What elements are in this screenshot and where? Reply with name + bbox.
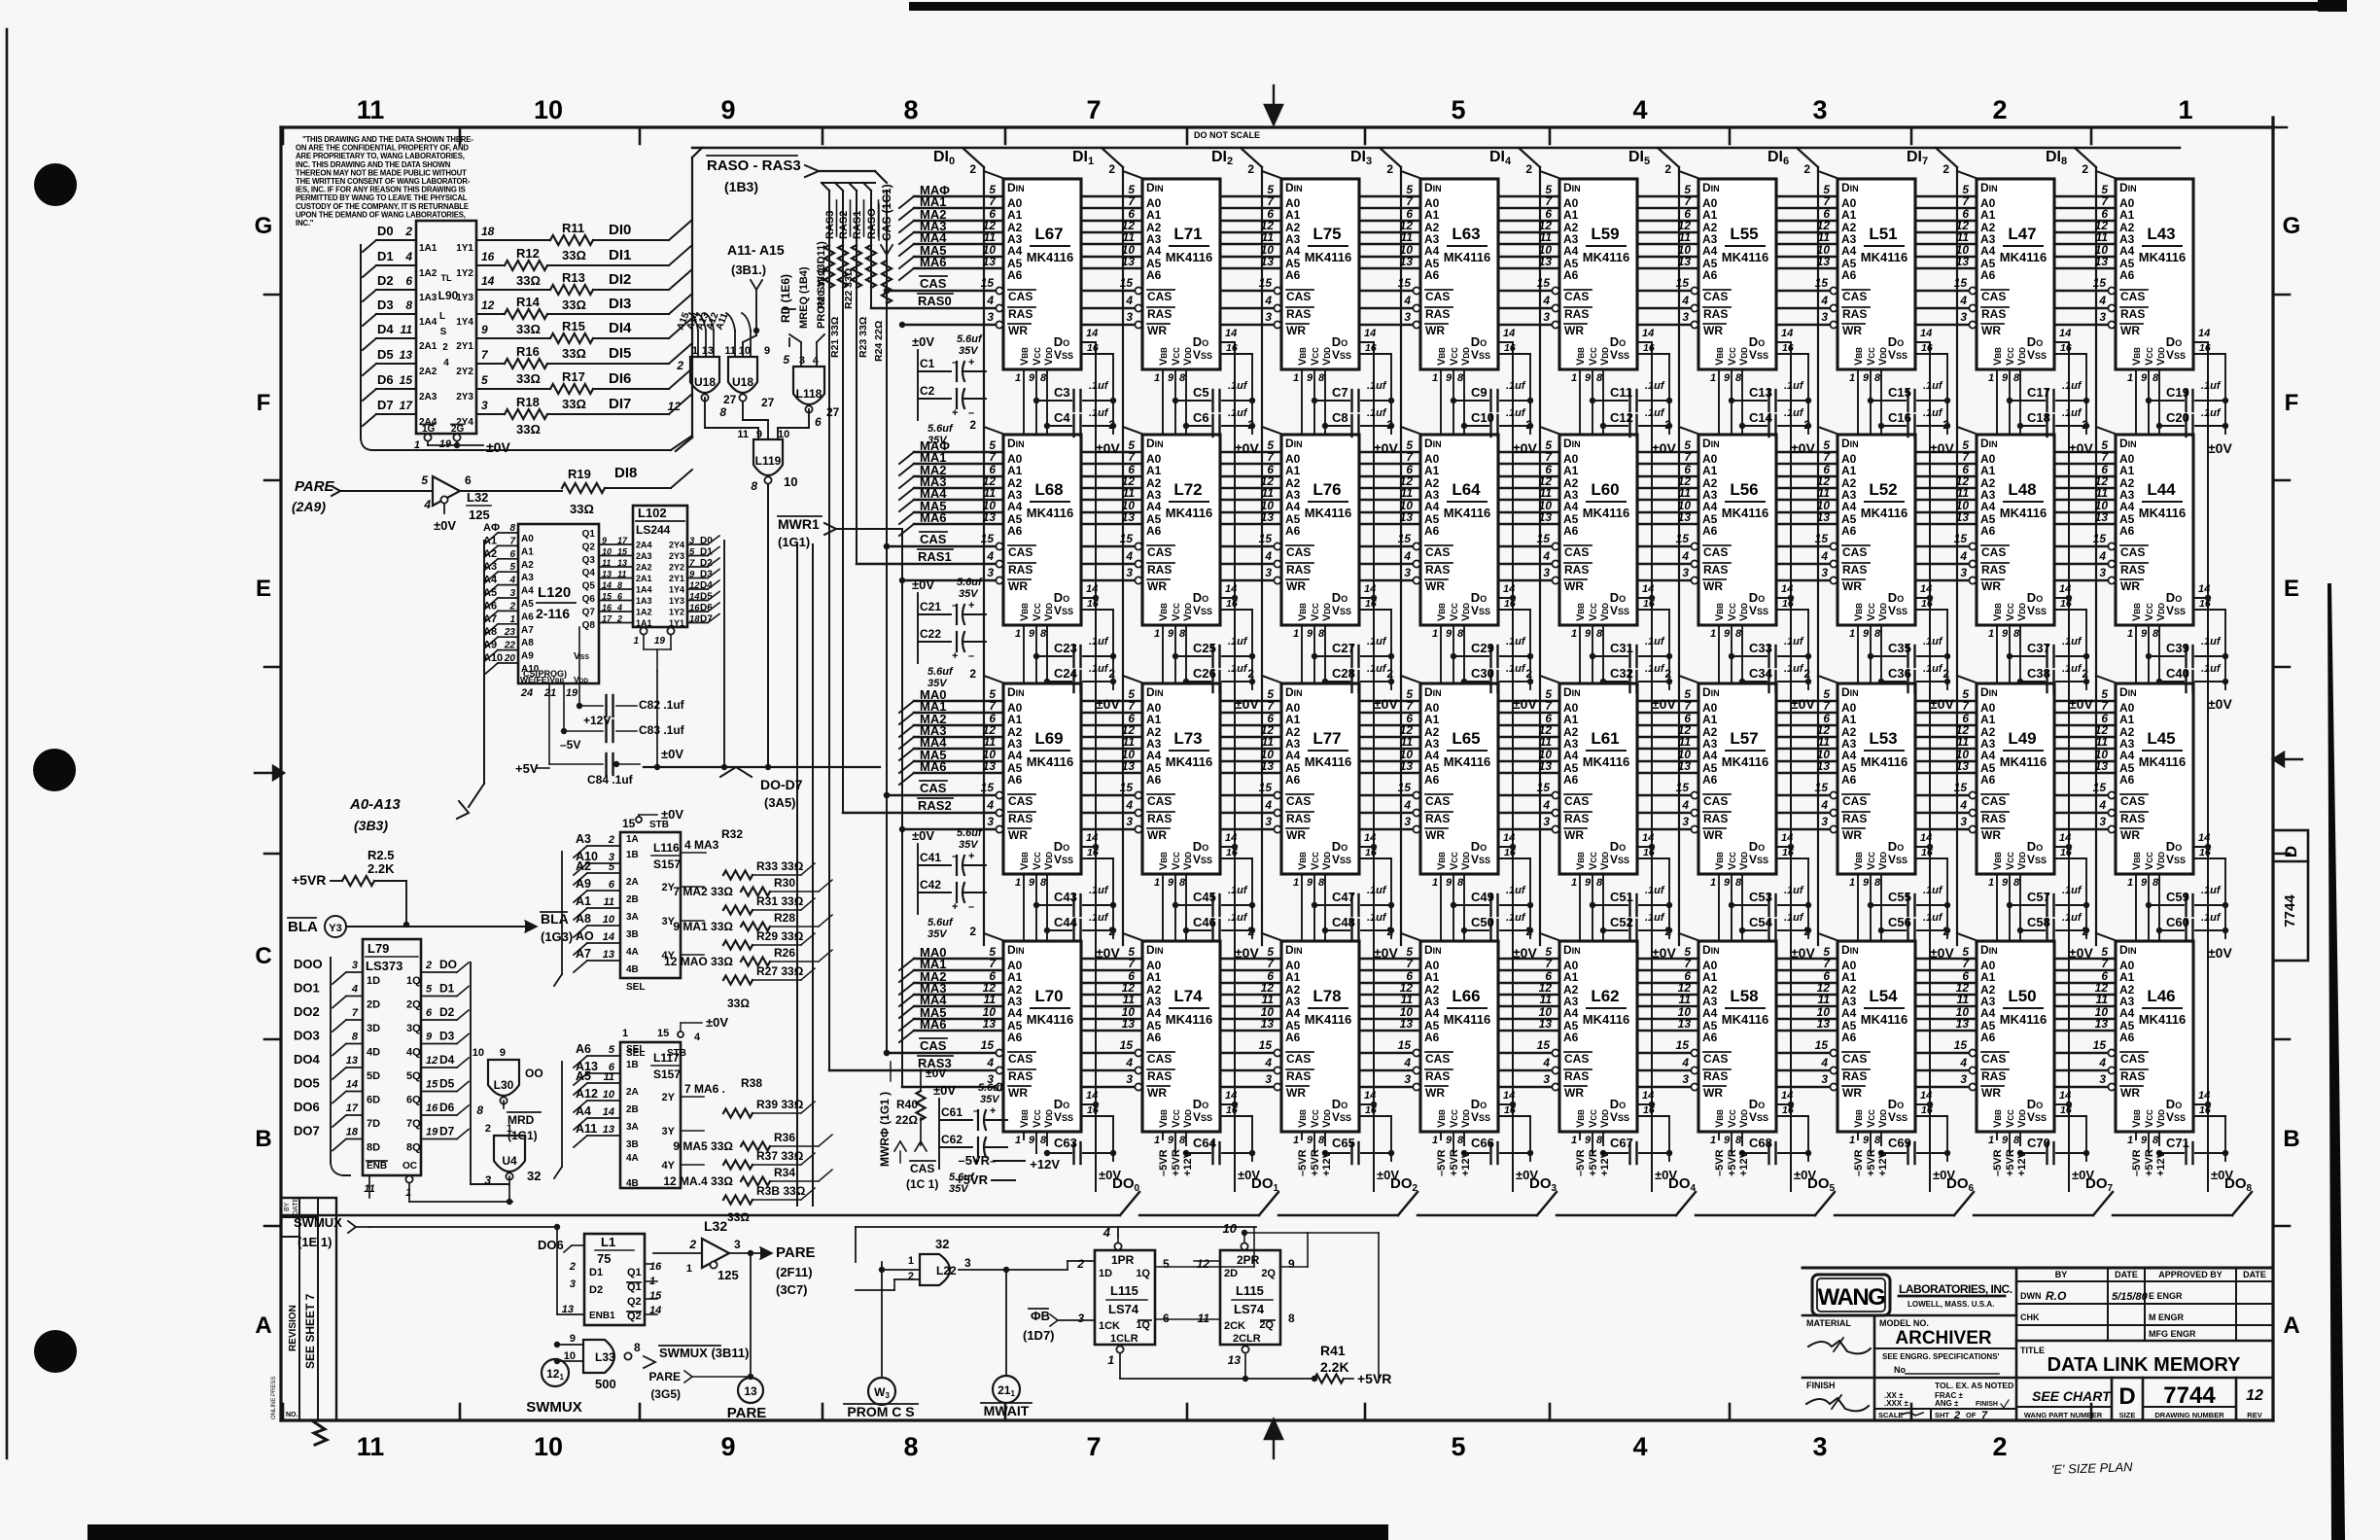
svg-text:4: 4 bbox=[1820, 294, 1828, 307]
svg-text:Q8: Q8 bbox=[582, 620, 596, 631]
svg-text:VCC: VCC bbox=[1171, 347, 1182, 366]
svg-text:A1: A1 bbox=[1146, 713, 1162, 726]
node DO3 output vertical bbox=[1512, 342, 1514, 1191]
svg-text:1D: 1D bbox=[367, 975, 380, 987]
svg-text:(3A5): (3A5) bbox=[764, 795, 796, 810]
svg-text:CHK: CHK bbox=[2020, 1312, 2040, 1322]
svg-text:D2: D2 bbox=[700, 558, 713, 569]
svg-text:11: 11 bbox=[1818, 993, 1831, 1006]
svg-text:11: 11 bbox=[1679, 993, 1692, 1006]
wire bus row1 RAS line bbox=[871, 307, 2116, 310]
svg-text:WANG: WANG bbox=[1818, 1284, 1885, 1311]
wire bus row3 RAS line bbox=[843, 812, 2116, 815]
svg-text:A6: A6 bbox=[1424, 1031, 1440, 1044]
svg-text:10: 10 bbox=[472, 1047, 484, 1059]
svg-text:15: 15 bbox=[1398, 781, 1412, 794]
svg-text:8: 8 bbox=[1596, 877, 1603, 889]
svg-text:1: 1 bbox=[1015, 628, 1021, 640]
svg-text:2Y4: 2Y4 bbox=[669, 541, 684, 550]
svg-text:FINISH: FINISH bbox=[1976, 1401, 1998, 1408]
svg-text:2D: 2D bbox=[1224, 1268, 1238, 1279]
svg-text:2Y3: 2Y3 bbox=[456, 392, 473, 402]
svg-text:DIN: DIN bbox=[1424, 181, 1442, 194]
svg-text:15: 15 bbox=[649, 1290, 662, 1302]
svg-text:L22: L22 bbox=[936, 1264, 957, 1277]
ground +-0V column 6 gap 3 bbox=[1807, 858, 1809, 938]
svg-text:(1C 1): (1C 1) bbox=[906, 1177, 938, 1191]
svg-text:ANG ±: ANG ± bbox=[1935, 1399, 1959, 1408]
capacitor C46 .1uf bbox=[1186, 929, 1210, 931]
svg-text:WR: WR bbox=[1286, 579, 1306, 593]
wire L79 output D3 bbox=[421, 1043, 457, 1045]
svg-text:R21 33Ω: R21 33Ω bbox=[829, 317, 841, 358]
svg-text:A4: A4 bbox=[1285, 749, 1301, 762]
svg-text:SIZE: SIZE bbox=[2119, 1411, 2136, 1419]
svg-text:3: 3 bbox=[352, 960, 358, 971]
svg-text:A7: A7 bbox=[483, 613, 497, 625]
svg-text:A6: A6 bbox=[1841, 1031, 1857, 1044]
svg-text:L116: L116 bbox=[653, 841, 680, 855]
svg-text:.1uf: .1uf bbox=[1506, 380, 1526, 392]
wire D7 input to L90 bbox=[363, 414, 376, 426]
wire L120 Q2 to L102 bbox=[599, 555, 633, 557]
svg-text:(3G5): (3G5) bbox=[650, 1387, 681, 1401]
svg-text:A7: A7 bbox=[521, 625, 534, 636]
WANG logo bbox=[1812, 1275, 1890, 1315]
svg-text:+12V: +12V bbox=[1030, 1157, 1060, 1172]
wire column 1 VBB/VCC/VDD verticals bbox=[1023, 369, 1025, 1139]
svg-text:–5VR: –5VR bbox=[1714, 1149, 1726, 1176]
svg-text:A4: A4 bbox=[1007, 1006, 1023, 1020]
svg-text:3: 3 bbox=[734, 1238, 741, 1251]
wire address A2 to L120 bbox=[484, 559, 498, 571]
wire A1 pin 11 to L116 bbox=[574, 908, 587, 920]
svg-text:WR: WR bbox=[1564, 1086, 1584, 1100]
svg-text:1: 1 bbox=[1710, 628, 1716, 640]
resistor ladder row y900 bbox=[723, 871, 752, 880]
svg-text:L48: L48 bbox=[2008, 480, 2036, 499]
DRAM L46 MK4116 row4 col9 bbox=[2116, 941, 2193, 1132]
svg-text:14: 14 bbox=[603, 1106, 614, 1118]
svg-text:MK4116: MK4116 bbox=[1444, 250, 1490, 264]
DRAM L62 MK4116 row4 col5 bbox=[1559, 941, 1637, 1132]
svg-text:±0V: ±0V bbox=[2069, 696, 2093, 712]
svg-text:L118: L118 bbox=[796, 387, 822, 401]
svg-text:2: 2 bbox=[676, 359, 683, 372]
svg-text:14: 14 bbox=[1225, 583, 1237, 595]
svg-text:A4: A4 bbox=[2119, 749, 2135, 762]
svg-text:DOO: DOO bbox=[294, 957, 323, 971]
svg-text:VCC: VCC bbox=[1310, 603, 1321, 621]
svg-text:15: 15 bbox=[1815, 532, 1829, 545]
svg-text:9: 9 bbox=[1863, 877, 1870, 889]
svg-text:+: + bbox=[952, 901, 958, 913]
DRAM L43 MK4116 row1 col9 bbox=[2116, 179, 2193, 369]
svg-text:U18: U18 bbox=[732, 375, 753, 389]
svg-text:A1: A1 bbox=[2119, 713, 2135, 726]
svg-text:11: 11 bbox=[1123, 230, 1136, 244]
svg-text:9: 9 bbox=[1446, 1135, 1452, 1146]
svg-text:14: 14 bbox=[1503, 832, 1515, 844]
node DO5 output vertical bbox=[1790, 342, 1792, 1191]
svg-text:9: 9 bbox=[2002, 877, 2009, 889]
svg-text:R32: R32 bbox=[721, 827, 743, 841]
svg-text:2: 2 bbox=[1942, 667, 1949, 681]
DRAM L53 MK4116 row3 col7 bbox=[1837, 683, 1915, 874]
svg-text:L58: L58 bbox=[1730, 987, 1758, 1005]
svg-text:1: 1 bbox=[1571, 628, 1577, 640]
svg-text:D7: D7 bbox=[700, 614, 713, 625]
svg-text:VSS: VSS bbox=[1610, 853, 1629, 866]
svg-text:8: 8 bbox=[405, 298, 412, 312]
svg-text:DO: DO bbox=[439, 958, 457, 971]
capacitor C29 .1uf bbox=[1453, 655, 1488, 657]
svg-text:19: 19 bbox=[566, 687, 578, 699]
svg-text:D1: D1 bbox=[377, 249, 394, 263]
svg-text:8: 8 bbox=[1735, 1135, 1742, 1146]
svg-text:(3B3): (3B3) bbox=[354, 818, 388, 833]
DRAM L72 MK4116 row2 col2 bbox=[1142, 435, 1220, 625]
svg-text:VCC: VCC bbox=[2144, 1109, 2155, 1128]
svg-text:8: 8 bbox=[2013, 372, 2020, 384]
svg-text:L77: L77 bbox=[1312, 729, 1341, 748]
svg-text:.1uf: .1uf bbox=[2062, 663, 2082, 675]
svg-text:8: 8 bbox=[1735, 628, 1742, 640]
svg-text:9: 9 bbox=[1307, 628, 1313, 640]
svg-text:WR: WR bbox=[1981, 579, 2001, 593]
svg-text:13: 13 bbox=[1261, 759, 1275, 773]
svg-text:8: 8 bbox=[634, 1341, 641, 1354]
svg-text:RAS: RAS bbox=[1842, 1069, 1867, 1083]
svg-text:C30: C30 bbox=[1471, 666, 1494, 681]
svg-text:CAS: CAS bbox=[920, 781, 947, 795]
resistor ladder row y1008 bbox=[723, 976, 752, 985]
svg-text:7: 7 bbox=[1086, 1432, 1101, 1461]
svg-text:A4: A4 bbox=[1702, 749, 1718, 762]
svg-text:L61: L61 bbox=[1591, 729, 1619, 748]
svg-text:VDD: VDD bbox=[1599, 852, 1611, 870]
svg-text:A4: A4 bbox=[1424, 749, 1440, 762]
svg-text:L50: L50 bbox=[2008, 987, 2036, 1005]
svg-text:DIN: DIN bbox=[1146, 943, 1164, 957]
svg-text:Q1: Q1 bbox=[627, 1267, 642, 1278]
svg-text:VDD: VDD bbox=[1599, 1109, 1611, 1128]
svg-text:16: 16 bbox=[1504, 598, 1516, 610]
svg-text:TITLE: TITLE bbox=[2020, 1346, 2045, 1355]
svg-text:±0V: ±0V bbox=[661, 807, 683, 822]
svg-text:6Q: 6Q bbox=[406, 1095, 421, 1106]
svg-text:WR: WR bbox=[1147, 579, 1167, 593]
svg-text:L60: L60 bbox=[1591, 480, 1619, 499]
svg-text:C54: C54 bbox=[1749, 915, 1773, 929]
svg-text:19: 19 bbox=[426, 1127, 438, 1138]
svg-text:15: 15 bbox=[602, 592, 612, 602]
svg-text:A1: A1 bbox=[1424, 464, 1440, 477]
svg-text:1A2: 1A2 bbox=[419, 268, 437, 279]
svg-text:2A1: 2A1 bbox=[419, 341, 437, 352]
svg-text:9: 9 bbox=[1168, 1135, 1174, 1146]
svg-text:11: 11 bbox=[984, 735, 997, 749]
wire ENB1 feed bbox=[556, 1227, 558, 1314]
svg-text:CAS: CAS bbox=[1008, 1052, 1032, 1066]
svg-text:A6: A6 bbox=[576, 1042, 591, 1056]
svg-text:4: 4 bbox=[2098, 798, 2106, 812]
svg-text:WR: WR bbox=[1147, 828, 1167, 842]
svg-text:PARE: PARE bbox=[727, 1405, 767, 1421]
resistor R22 33&#937; bbox=[852, 245, 861, 288]
svg-text:VDD: VDD bbox=[2155, 1109, 2167, 1128]
capacitor C43 .1uf bbox=[1036, 904, 1071, 906]
svg-text:.1uf: .1uf bbox=[1923, 912, 1943, 924]
svg-text:35V: 35V bbox=[949, 1183, 969, 1195]
svg-text:14: 14 bbox=[1920, 583, 1932, 595]
svg-text:RAS: RAS bbox=[1842, 307, 1867, 321]
capacitor C19 .1uf bbox=[2149, 400, 2184, 402]
svg-text:A1: A1 bbox=[1285, 464, 1301, 477]
svg-text:DIN: DIN bbox=[2119, 181, 2137, 194]
ground +-0V column 2 gap 2 bbox=[1251, 610, 1253, 689]
svg-text:A6: A6 bbox=[1841, 524, 1857, 538]
svg-text:CAS: CAS bbox=[1147, 290, 1172, 303]
svg-text:A4: A4 bbox=[1841, 500, 1857, 513]
svg-text:4: 4 bbox=[1125, 294, 1133, 307]
resistor R12 33&#937; bbox=[476, 264, 505, 266]
svg-text:MK4116: MK4116 bbox=[2139, 250, 2186, 264]
svg-text:VCC: VCC bbox=[1866, 347, 1877, 366]
ground +-0V column 7 gap 1 bbox=[1946, 354, 1948, 434]
svg-text:8: 8 bbox=[617, 580, 622, 590]
svg-text:D7: D7 bbox=[377, 398, 394, 412]
svg-text:L67: L67 bbox=[1034, 225, 1063, 243]
svg-text:.1uf: .1uf bbox=[1506, 407, 1526, 419]
wire column 8 VBB/VCC/VDD verticals bbox=[1996, 369, 1998, 1139]
svg-text:MK4116: MK4116 bbox=[1027, 754, 1073, 769]
svg-text:E ENGR: E ENGR bbox=[2149, 1291, 2183, 1301]
svg-text:WR: WR bbox=[1703, 1086, 1723, 1100]
svg-text:D1: D1 bbox=[589, 1267, 603, 1278]
svg-text:13: 13 bbox=[1228, 1353, 1242, 1367]
svg-text:DIN: DIN bbox=[1285, 181, 1303, 194]
svg-text:CAS: CAS bbox=[1703, 545, 1728, 559]
svg-text:3: 3 bbox=[1543, 815, 1550, 828]
svg-text:23: 23 bbox=[504, 627, 516, 638]
svg-text:DIN: DIN bbox=[1146, 437, 1164, 450]
svg-text:C67: C67 bbox=[1610, 1136, 1633, 1150]
svg-text:2: 2 bbox=[1076, 1257, 1084, 1271]
svg-text:11: 11 bbox=[737, 429, 749, 440]
wire A6 pin 5 to L117 bbox=[574, 1056, 587, 1067]
svg-text:2: 2 bbox=[616, 614, 622, 624]
svg-text:A8: A8 bbox=[483, 626, 497, 638]
svg-text:13: 13 bbox=[603, 1124, 614, 1136]
svg-text:VDD: VDD bbox=[1460, 603, 1472, 621]
svg-text:15: 15 bbox=[1259, 781, 1273, 794]
svg-text:RAS: RAS bbox=[1147, 307, 1172, 321]
svg-text:10: 10 bbox=[784, 474, 797, 489]
svg-text:WR: WR bbox=[1425, 828, 1445, 842]
svg-text:MK4116: MK4116 bbox=[1722, 506, 1768, 520]
svg-text:VBB: VBB bbox=[1297, 1109, 1309, 1128]
wires U18 outputs to L119 bbox=[704, 398, 706, 428]
svg-text:A1: A1 bbox=[1146, 464, 1162, 477]
svg-text:WR: WR bbox=[1008, 828, 1028, 842]
svg-text:S: S bbox=[440, 327, 447, 337]
svg-text:RAS: RAS bbox=[1147, 1069, 1172, 1083]
DRAM L70 MK4116 row4 col1 bbox=[1003, 941, 1081, 1132]
capacitor C6 .1uf bbox=[1186, 425, 1210, 427]
svg-text:A1: A1 bbox=[576, 894, 591, 908]
svg-text:.1uf: .1uf bbox=[1367, 912, 1387, 924]
wire L120 Q4 to L102 bbox=[599, 577, 633, 579]
svg-text:.1uf: .1uf bbox=[1645, 407, 1665, 419]
svg-text:8: 8 bbox=[476, 1103, 483, 1117]
svg-text:2: 2 bbox=[1942, 162, 1949, 176]
svg-text:13: 13 bbox=[1539, 255, 1553, 268]
wire L79 output D4 bbox=[421, 1067, 457, 1068]
svg-text:CAS: CAS bbox=[1147, 545, 1172, 559]
svg-text:9: 9 bbox=[1863, 628, 1870, 640]
svg-text:35V: 35V bbox=[959, 345, 979, 357]
svg-text:±0V: ±0V bbox=[2208, 945, 2232, 961]
svg-text:L33: L33 bbox=[595, 1350, 615, 1364]
svg-text:C2: C2 bbox=[920, 384, 935, 398]
svg-text:12 MAO 33Ω: 12 MAO 33Ω bbox=[664, 955, 733, 968]
svg-text:1A4: 1A4 bbox=[419, 317, 437, 328]
svg-text:11: 11 bbox=[1679, 735, 1692, 749]
svg-text:8: 8 bbox=[1318, 372, 1325, 384]
svg-text:RAS: RAS bbox=[1008, 563, 1032, 577]
svg-text:9: 9 bbox=[1585, 1135, 1592, 1146]
svg-text:VSS: VSS bbox=[1193, 604, 1212, 617]
terminal circle 12 SWMUX bbox=[542, 1359, 569, 1386]
svg-text:±0V: ±0V bbox=[706, 1015, 728, 1030]
svg-text:VCC: VCC bbox=[1032, 852, 1043, 870]
side zone ticks bbox=[264, 294, 281, 297]
svg-text:15: 15 bbox=[2093, 1038, 2107, 1052]
svg-text:C56: C56 bbox=[1888, 915, 1911, 929]
svg-text:13: 13 bbox=[1678, 1017, 1692, 1031]
svg-text:10: 10 bbox=[602, 547, 612, 557]
svg-text:DO4: DO4 bbox=[294, 1052, 321, 1067]
svg-text:RAS: RAS bbox=[1564, 1069, 1589, 1083]
svg-text:16: 16 bbox=[602, 603, 612, 612]
svg-text:MATERIAL: MATERIAL bbox=[1806, 1318, 1851, 1328]
svg-text:9: 9 bbox=[500, 1047, 506, 1059]
svg-text:1Y2: 1Y2 bbox=[456, 268, 473, 279]
svg-text:1: 1 bbox=[1107, 1353, 1114, 1367]
svg-text:C38: C38 bbox=[2027, 666, 2050, 681]
svg-text:VSS: VSS bbox=[1332, 853, 1351, 866]
wire D5 input to L90 bbox=[363, 364, 376, 375]
svg-text:VCC: VCC bbox=[1449, 603, 1460, 621]
svg-text:2: 2 bbox=[969, 418, 976, 432]
node DI6 column data-in vertical bbox=[1797, 148, 1818, 167]
svg-text:C25: C25 bbox=[1193, 641, 1216, 655]
svg-text:9: 9 bbox=[1863, 1135, 1870, 1146]
svg-text:WR: WR bbox=[1703, 324, 1723, 337]
wire column 9 VBB/VCC/VDD verticals bbox=[2135, 369, 2137, 1139]
svg-text:15: 15 bbox=[1398, 1038, 1412, 1052]
svg-text:4: 4 bbox=[986, 294, 994, 307]
node DO1 output vertical bbox=[1234, 342, 1236, 1191]
ground +-0V column 5 gap 1 bbox=[1668, 354, 1670, 434]
svg-text:9: 9 bbox=[1724, 1135, 1731, 1146]
svg-text:A1: A1 bbox=[1841, 713, 1857, 726]
svg-text:.1uf: .1uf bbox=[1923, 636, 1943, 647]
svg-text:3: 3 bbox=[1960, 1072, 1967, 1086]
svg-text:16: 16 bbox=[1643, 847, 1655, 858]
svg-text:3: 3 bbox=[1543, 566, 1550, 579]
svg-text:1CK: 1CK bbox=[1099, 1320, 1120, 1332]
svg-text:VBB: VBB bbox=[1714, 1109, 1726, 1128]
svg-text:VDD: VDD bbox=[2155, 852, 2167, 870]
svg-text:1: 1 bbox=[2127, 877, 2133, 889]
svg-text:4A: 4A bbox=[626, 947, 639, 958]
svg-text:VBB: VBB bbox=[1853, 852, 1865, 870]
svg-text:PROM C S: PROM C S bbox=[847, 1404, 914, 1419]
svg-text:A6: A6 bbox=[1007, 1031, 1023, 1044]
svg-text:1: 1 bbox=[1293, 628, 1299, 640]
svg-text:WR: WR bbox=[1842, 324, 1862, 337]
svg-text:STB: STB bbox=[667, 1048, 686, 1059]
svg-text:11: 11 bbox=[1540, 993, 1553, 1006]
svg-text:A6: A6 bbox=[1841, 773, 1857, 787]
ground +-0V column 8 gap 2 bbox=[2085, 610, 2087, 689]
svg-text:VBB: VBB bbox=[1158, 603, 1170, 621]
svg-text:15: 15 bbox=[1676, 781, 1690, 794]
svg-text:14: 14 bbox=[1781, 583, 1793, 595]
svg-text:A6: A6 bbox=[2119, 268, 2135, 282]
svg-text:A4: A4 bbox=[1980, 1006, 1996, 1020]
svg-text:3: 3 bbox=[1404, 815, 1411, 828]
svg-text:±0V: ±0V bbox=[434, 518, 456, 533]
resistor ladder row y1145 bbox=[723, 1109, 752, 1118]
svg-text:CAS: CAS bbox=[1286, 290, 1311, 303]
ground +-0V column 3 gap 3 bbox=[1390, 858, 1392, 938]
wire address A6 to L120 bbox=[484, 611, 498, 622]
svg-text:VSS: VSS bbox=[1888, 604, 1907, 617]
svg-text:C31: C31 bbox=[1610, 641, 1633, 655]
svg-text:DRAWING NUMBER: DRAWING NUMBER bbox=[2154, 1411, 2224, 1419]
svg-text:+: + bbox=[968, 600, 974, 612]
svg-text:RAS3: RAS3 bbox=[824, 211, 836, 239]
svg-text:8: 8 bbox=[509, 523, 515, 534]
svg-text:R30: R30 bbox=[774, 876, 795, 890]
gate L22 bbox=[920, 1254, 950, 1285]
svg-text:16: 16 bbox=[2060, 847, 2072, 858]
capacitor C27 .1uf bbox=[1314, 655, 1349, 657]
svg-text:CAS: CAS bbox=[1425, 290, 1450, 303]
ground +-0V column 9 gap 1 bbox=[2224, 354, 2226, 434]
svg-text:1A: 1A bbox=[626, 834, 639, 845]
svg-text:±0V: ±0V bbox=[1096, 440, 1120, 456]
svg-text:R29 33Ω: R29 33Ω bbox=[756, 929, 804, 943]
svg-text:C68: C68 bbox=[1749, 1136, 1772, 1150]
svg-text:4: 4 bbox=[694, 1032, 701, 1043]
svg-text:2Y1: 2Y1 bbox=[456, 341, 473, 352]
svg-text:3B: 3B bbox=[626, 929, 639, 940]
svg-text:DI3: DI3 bbox=[609, 296, 631, 312]
svg-text:L73: L73 bbox=[1173, 729, 1202, 748]
svg-text:13: 13 bbox=[1956, 759, 1970, 773]
svg-text:F: F bbox=[257, 390, 271, 416]
svg-text:WR: WR bbox=[1981, 828, 2001, 842]
svg-text:C83 .1uf: C83 .1uf bbox=[639, 723, 685, 737]
svg-text:±0V: ±0V bbox=[1652, 945, 1676, 961]
svg-text:15: 15 bbox=[981, 781, 995, 794]
wire L102 output D2 bbox=[687, 566, 708, 568]
svg-text:.1uf: .1uf bbox=[1367, 407, 1387, 419]
